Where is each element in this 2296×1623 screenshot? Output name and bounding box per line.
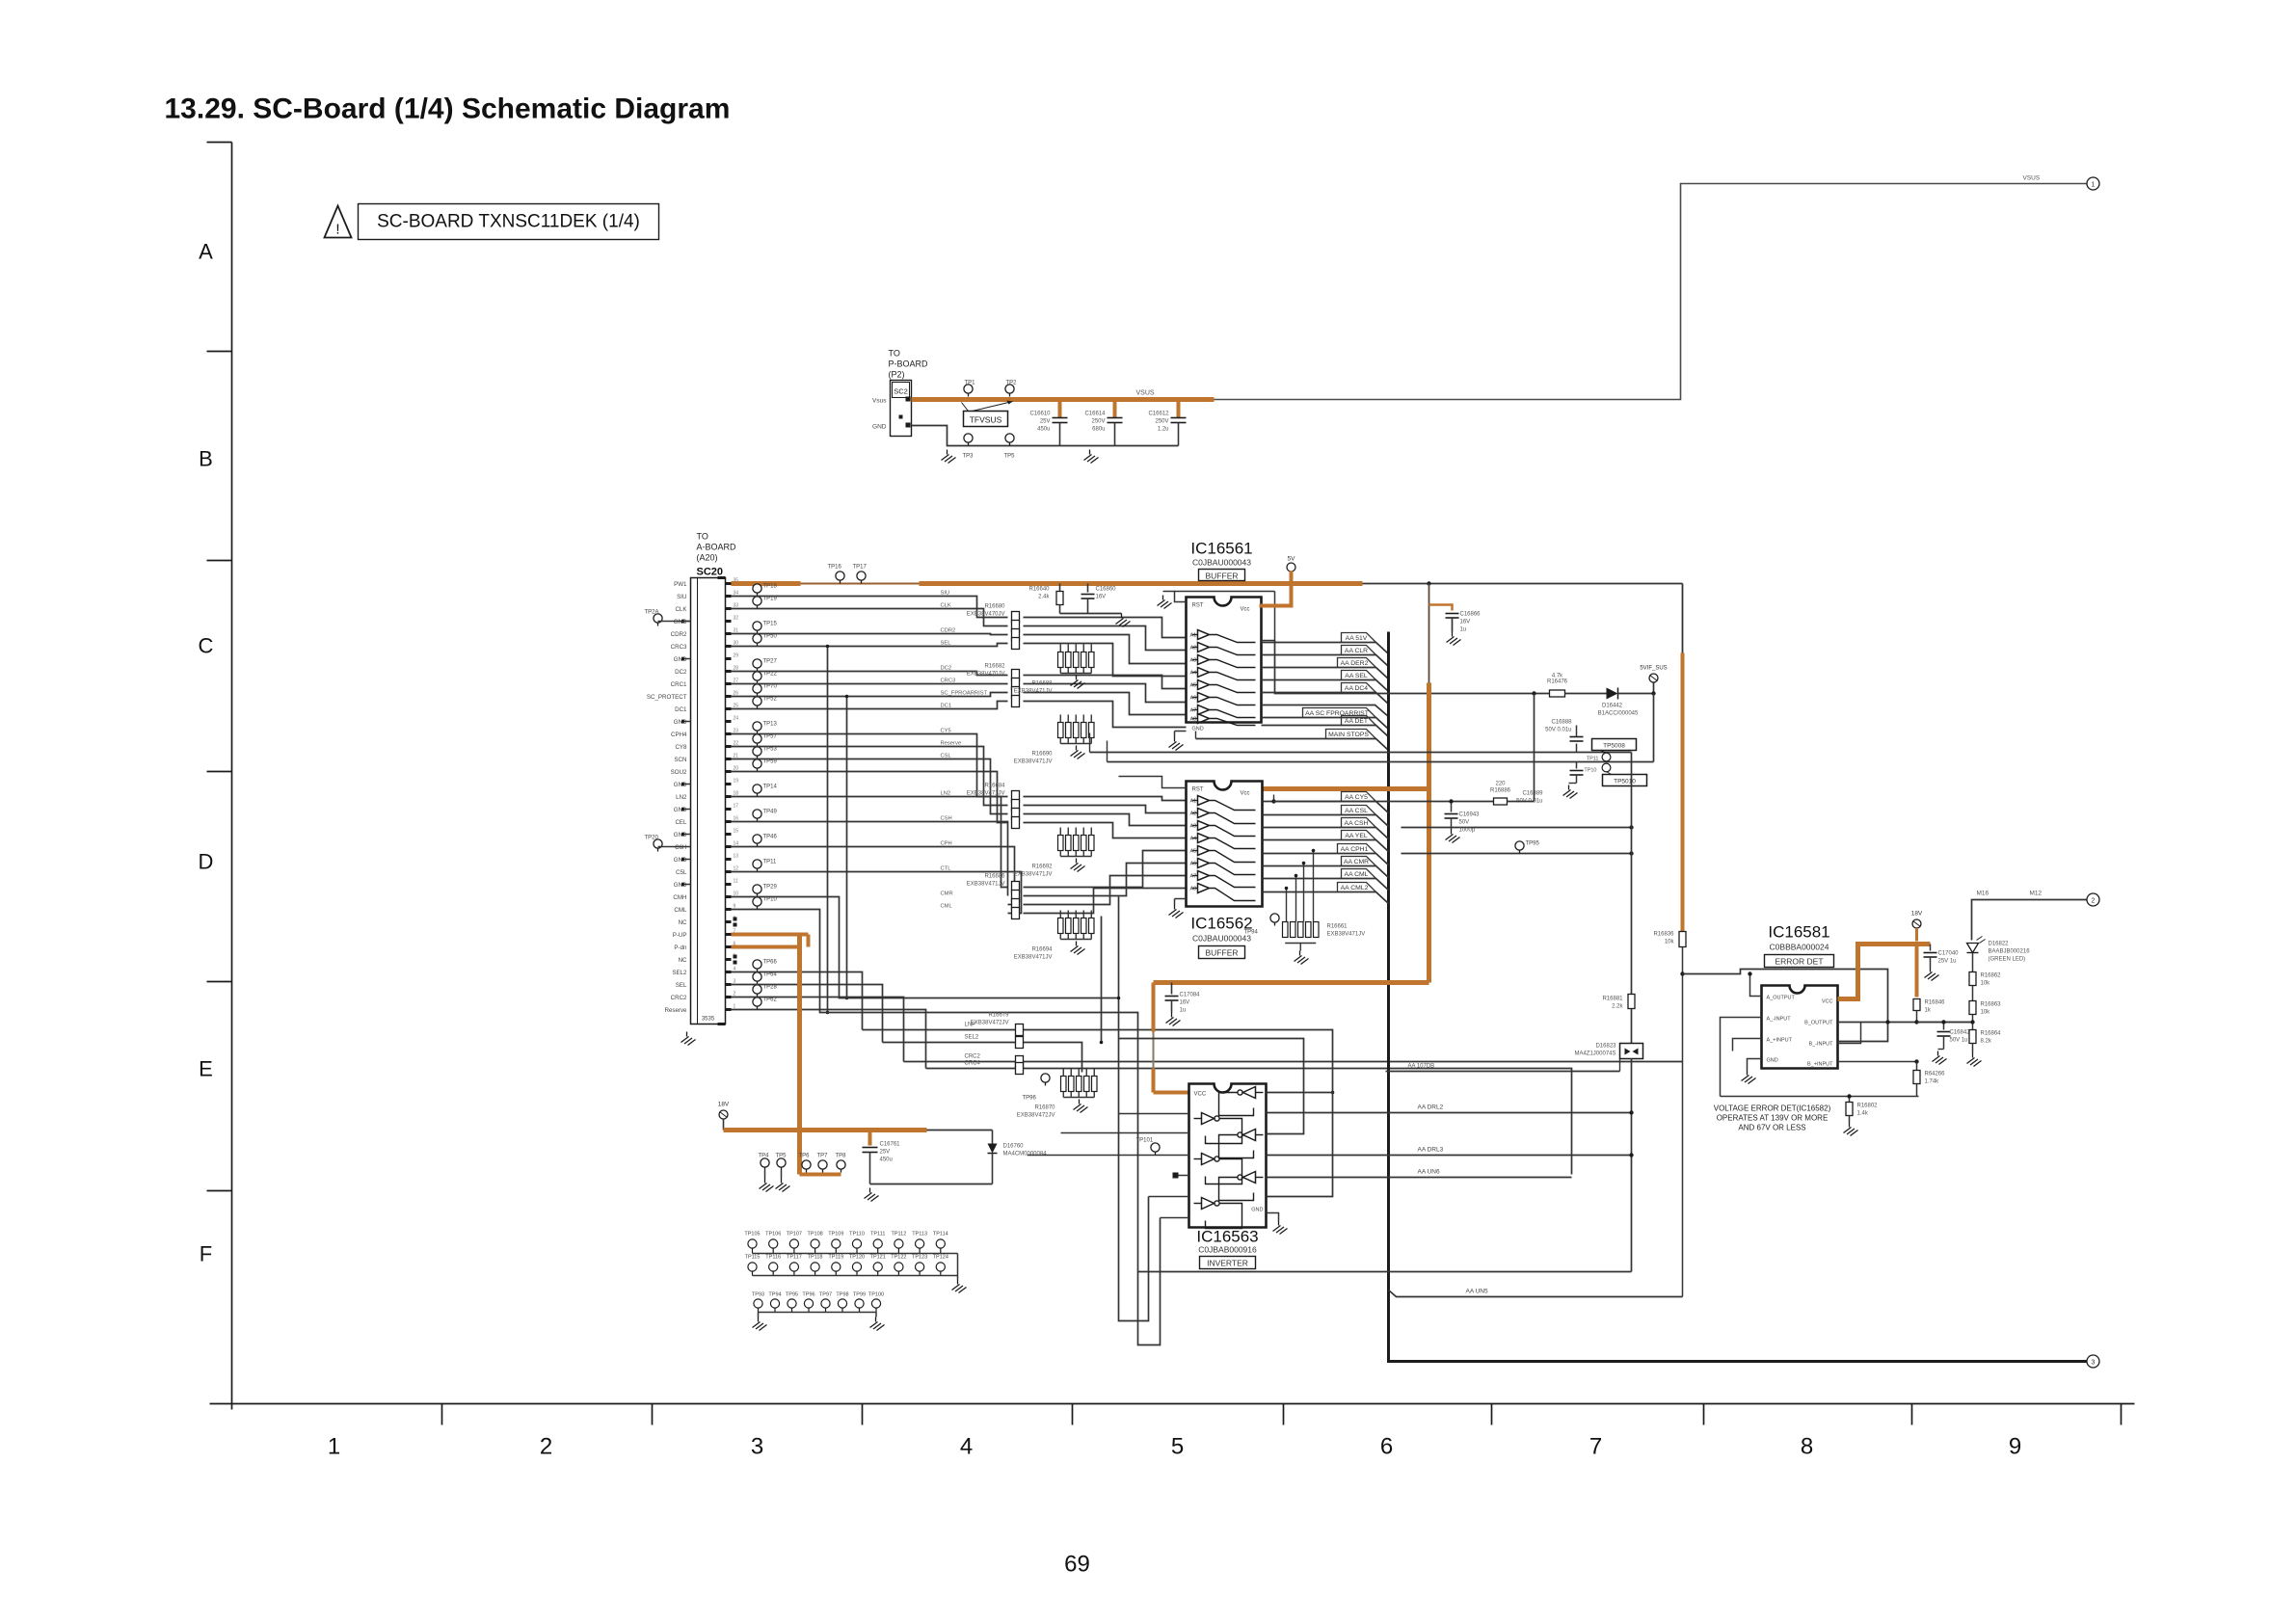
svg-text:TP4: TP4 — [759, 1154, 770, 1159]
svg-text:24: 24 — [734, 716, 739, 722]
svg-text:TP114: TP114 — [933, 1232, 948, 1237]
svg-text:50V 0.01u: 50V 0.01u — [1545, 728, 1571, 733]
svg-text:25: 25 — [734, 704, 739, 709]
ground — [952, 1280, 967, 1293]
svg-text:12: 12 — [734, 866, 739, 872]
net tag MAIN STOPS — [1196, 739, 1389, 751]
svg-text:TP19: TP19 — [763, 597, 778, 602]
svg-text:SEL2: SEL2 — [672, 970, 687, 976]
connector SC20 ground pin stubs — [681, 620, 691, 887]
svg-text:!: ! — [335, 222, 339, 238]
svg-text:TP14: TP14 — [763, 785, 778, 790]
svg-text:TP122: TP122 — [891, 1255, 906, 1261]
resistor network R16682 EXB38V470JV — [967, 664, 1020, 707]
IC16563 inverter gates — [1194, 1087, 1264, 1229]
svg-text:D16823: D16823 — [1595, 1044, 1616, 1050]
test point TP49 — [753, 810, 778, 822]
svg-text:VSUS: VSUS — [2023, 175, 2041, 182]
svg-text:C17084: C17084 — [1180, 993, 1201, 998]
ground — [1447, 632, 1461, 646]
svg-text:TP95: TP95 — [786, 1292, 798, 1298]
svg-text:TP2: TP2 — [1006, 381, 1018, 386]
net tag AA CSL — [1263, 815, 1389, 827]
svg-text:R16661: R16661 — [1327, 924, 1348, 930]
SC20 NC pin marks — [734, 918, 737, 927]
svg-text:32: 32 — [734, 616, 739, 622]
svg-text:1: 1 — [734, 1004, 736, 1010]
svg-text:CY5: CY5 — [941, 729, 951, 734]
svg-text:TP99: TP99 — [853, 1292, 866, 1298]
wire net LNP — [863, 1030, 1333, 1093]
comparator IC16581 C0BBBA000024 ERROR DET — [1762, 923, 1838, 1069]
svg-text:TO: TO — [697, 532, 708, 542]
svg-text:A7: A7 — [1190, 708, 1197, 714]
svg-text:A8: A8 — [1190, 887, 1197, 892]
svg-text:A1: A1 — [1190, 799, 1197, 805]
svg-text:TFVSUS: TFVSUS — [970, 415, 1002, 425]
wire B_-INPUT — [1838, 1023, 1861, 1044]
ground — [1295, 951, 1309, 965]
svg-text:TP5010: TP5010 — [1614, 779, 1636, 785]
svg-text:31: 31 — [734, 628, 739, 634]
svg-text:GND: GND — [674, 882, 687, 889]
svg-text:TP120: TP120 — [849, 1255, 865, 1261]
svg-text:23: 23 — [734, 729, 739, 734]
svg-text:A5: A5 — [1190, 849, 1197, 855]
border frame bottom line — [210, 1403, 2135, 1405]
svg-text:(P2): (P2) — [889, 370, 905, 380]
wire vertical x=1745 (right) — [1682, 584, 1684, 653]
svg-text:Reserve: Reserve — [941, 741, 962, 747]
svg-text:CRC3: CRC3 — [671, 644, 687, 651]
wire 5V bus from SC20 pin PW1 (orange) — [732, 581, 801, 586]
svg-text:50V 1u: 50V 1u — [1950, 1038, 1968, 1044]
svg-text:TP107: TP107 — [787, 1232, 802, 1237]
orange Vcc wiring of IC16581 — [1838, 945, 1931, 999]
wire R16640/C16860 ground rail — [1060, 613, 1122, 615]
test point TP50 — [753, 634, 778, 647]
svg-text:AA CPH1: AA CPH1 — [1341, 846, 1369, 853]
ground — [1563, 785, 1578, 799]
svg-text:TP97: TP97 — [819, 1292, 832, 1298]
capacitor C16842 — [1937, 1023, 1971, 1050]
svg-text:P-BOARD: P-BOARD — [889, 359, 929, 369]
svg-text:Vcc: Vcc — [1240, 607, 1249, 613]
svg-text:DC2: DC2 — [675, 669, 687, 676]
test point TP95 — [1515, 841, 1540, 854]
resistor chain R16862/R16863/R16864 — [1972, 953, 1974, 972]
ground — [1166, 1013, 1181, 1026]
svg-text:13: 13 — [734, 854, 739, 860]
svg-text:A2: A2 — [1190, 811, 1197, 817]
wire 5V bus continuation (black) to right vertical — [1363, 583, 1683, 585]
svg-text:TP113: TP113 — [912, 1232, 927, 1237]
svg-text:TP5008: TP5008 — [1603, 743, 1625, 750]
ground — [753, 1317, 767, 1331]
svg-text:3: 3 — [751, 1434, 763, 1460]
net tag AA YEL — [1263, 840, 1389, 852]
svg-text:AA SEL: AA SEL — [1345, 673, 1368, 679]
svg-text:A3: A3 — [1190, 658, 1197, 664]
svg-text:OPERATES AT 139V OR MORE: OPERATES AT 139V OR MORE — [1717, 1114, 1829, 1123]
svg-text:TP5: TP5 — [776, 1154, 788, 1159]
svg-text:TP7: TP7 — [817, 1154, 829, 1159]
svg-text:TP96: TP96 — [1023, 1096, 1037, 1102]
svg-text:4.7k: 4.7k — [1552, 674, 1563, 679]
svg-text:29: 29 — [734, 653, 739, 659]
IC16563 top loop — [1119, 1039, 1304, 1134]
svg-text:D16822: D16822 — [1989, 942, 2010, 947]
wire Vsus bus (orange) from SC2 — [912, 397, 1215, 402]
svg-text:220: 220 — [1495, 782, 1506, 787]
svg-text:B1ACC/000045: B1ACC/000045 — [1598, 711, 1639, 717]
svg-text:10k: 10k — [1981, 1010, 1991, 1016]
test point TP5 — [1004, 434, 1016, 460]
svg-text:LN2: LN2 — [941, 791, 951, 797]
svg-text:4: 4 — [734, 967, 736, 972]
svg-text:MAIN STOPS: MAIN STOPS — [1328, 732, 1369, 738]
svg-text:2.4k: 2.4k — [1038, 595, 1050, 600]
svg-text:GND: GND — [674, 857, 687, 864]
svg-text:SEL2: SEL2 — [965, 1035, 979, 1041]
svg-text:A3: A3 — [1190, 824, 1197, 830]
wire P-dn row (orange) — [732, 945, 800, 949]
svg-text:GND: GND — [1767, 1058, 1778, 1064]
svg-text:TP50: TP50 — [763, 634, 778, 640]
svg-text:SIU: SIU — [677, 594, 686, 600]
svg-text:SC-BOARD TXNSC11DEK (1/4): SC-BOARD TXNSC11DEK (1/4) — [377, 212, 640, 232]
svg-text:C0JBAU000043: C0JBAU000043 — [1192, 558, 1251, 568]
note text voltage error det — [1714, 1104, 1831, 1132]
wire Vsus continues to sheet terminal 1 — [1215, 184, 2087, 400]
svg-text:RST: RST — [1192, 603, 1204, 609]
resistor R64266 — [1916, 1062, 1918, 1071]
net tag AA 51V — [1262, 643, 1389, 654]
wire orange horizontal to IC16563 supply — [1154, 980, 1429, 985]
svg-text:3: 3 — [2092, 1360, 2096, 1367]
ground — [760, 1179, 774, 1192]
LED D16822 BAABJB000216 (GREEN LED) — [1967, 937, 2031, 963]
svg-text:TP121: TP121 — [870, 1255, 886, 1261]
frame column tick — [2121, 1404, 2122, 1425]
svg-text:69: 69 — [1064, 1552, 1090, 1578]
test point TP29 — [753, 885, 778, 897]
svg-text:AA DC4: AA DC4 — [1345, 685, 1368, 692]
resistor network R16690 — [1014, 715, 1094, 765]
ground — [1273, 1221, 1288, 1235]
IC16561 buffer gates — [1190, 630, 1256, 726]
svg-text:R16679: R16679 — [988, 1013, 1009, 1019]
svg-text:1.2u: 1.2u — [1158, 427, 1169, 433]
svg-text:TP27: TP27 — [763, 659, 778, 665]
resistor network R16870 — [1017, 1069, 1097, 1119]
net tag AA CML2 — [1263, 892, 1389, 904]
svg-text:A1: A1 — [1190, 633, 1197, 639]
test point TP1 — [964, 381, 975, 397]
wire feedback vertical x=1591 — [1534, 694, 1535, 802]
resistor network R16692 — [1014, 828, 1094, 878]
wire SC20 CMH/CML rows — [732, 897, 1119, 1039]
svg-text:SCN: SCN — [674, 757, 686, 763]
power symbol 5VSUS — [1640, 666, 1667, 683]
ground — [1071, 859, 1085, 872]
svg-text:TP119: TP119 — [828, 1255, 843, 1261]
svg-text:AA CY5: AA CY5 — [1345, 794, 1368, 801]
IC16563 left loop B — [1138, 1068, 1161, 1345]
svg-text:R16886: R16886 — [1490, 788, 1511, 794]
wire group SC20 DC2/CRC1/SC_PROTECT/DC1 to IC16561 inputs — [732, 672, 1008, 676]
svg-text:450u: 450u — [880, 1157, 893, 1163]
wire feedback bottom — [1721, 1096, 1919, 1098]
svg-text:A_+INPUT: A_+INPUT — [1767, 1038, 1793, 1044]
wire GND from SC2 — [912, 426, 1179, 446]
svg-text:D16760: D16760 — [1003, 1144, 1025, 1150]
svg-text:CPH4: CPH4 — [671, 732, 687, 738]
svg-text:AA UN6: AA UN6 — [1418, 1169, 1441, 1176]
frame row tick — [207, 560, 232, 562]
IC16581 GND — [1748, 1059, 1762, 1071]
svg-text:GND: GND — [674, 619, 687, 625]
ground — [776, 1179, 790, 1192]
svg-text:CSH: CSH — [941, 816, 952, 822]
wire group SC20 SEL2/SEL/CRC2/Reserve down to lower nets — [732, 972, 863, 1030]
svg-text:R16881: R16881 — [1602, 997, 1623, 1002]
svg-text:NC: NC — [679, 957, 687, 964]
svg-text:TP94: TP94 — [768, 1292, 781, 1298]
svg-text:14: 14 — [734, 841, 739, 847]
svg-text:GND: GND — [674, 782, 687, 788]
wire net SEL2 — [883, 1043, 1082, 1073]
svg-text:9: 9 — [734, 904, 736, 910]
warning triangle — [325, 206, 352, 238]
svg-text:20: 20 — [734, 766, 739, 772]
wire C16761/D16760 ground link — [870, 1184, 993, 1185]
test point TP10 — [1584, 763, 1611, 773]
svg-text:(GREEN LED): (GREEN LED) — [1989, 957, 2026, 963]
svg-text:TP8: TP8 — [836, 1154, 847, 1159]
svg-text:MA4Z1J00074S: MA4Z1J00074S — [1574, 1051, 1615, 1057]
test point TP10 — [753, 897, 778, 910]
ground — [1742, 1071, 1756, 1084]
svg-text:TP53: TP53 — [763, 747, 778, 753]
svg-text:R64266: R64266 — [1925, 1072, 1946, 1078]
svg-text:TP115: TP115 — [745, 1255, 761, 1261]
IC16561 RST pin wiring and ground — [1175, 592, 1275, 602]
test point TP22 — [753, 672, 778, 684]
frame column tick — [1703, 1404, 1705, 1425]
svg-text:EXB38V472JV: EXB38V472JV — [971, 1021, 1009, 1026]
svg-text:AA YEL: AA YEL — [1345, 833, 1368, 839]
svg-text:1k: 1k — [1925, 1008, 1932, 1014]
svg-text:250V: 250V — [1155, 419, 1168, 425]
svg-text:VOLTAGE ERROR DET(IC16582): VOLTAGE ERROR DET(IC16582) — [1714, 1104, 1831, 1113]
svg-text:TP95: TP95 — [1526, 841, 1540, 847]
test point row TP115-TP124 — [745, 1254, 958, 1280]
svg-text:TO: TO — [889, 349, 900, 359]
wire IC16581 outer loop — [1683, 970, 1888, 1042]
svg-text:EXB38V472JV: EXB38V472JV — [1017, 1113, 1055, 1119]
power symbol 5V (IC16581) — [1911, 911, 1923, 942]
test point TP11 — [1587, 753, 1611, 761]
svg-text:D16442: D16442 — [1602, 704, 1623, 709]
svg-text:PW1: PW1 — [674, 581, 687, 588]
svg-text:B_OUTPUT: B_OUTPUT — [1804, 1021, 1833, 1026]
wire bottom loop to bus (AA UN5) — [1389, 1290, 1683, 1297]
svg-text:TP10: TP10 — [763, 897, 778, 903]
test point TP14 — [753, 785, 778, 797]
test point TP16 — [828, 565, 845, 584]
ground — [1074, 1100, 1088, 1113]
wire orange IC16562 Vcc horizontal — [1263, 786, 1429, 791]
test point TP2A — [645, 610, 663, 626]
net tag AA CML — [1263, 879, 1389, 891]
wire B_+INPUT to R64266 — [1838, 1061, 1917, 1063]
wire branch CRC3 down bundle — [827, 647, 829, 1013]
svg-text:D: D — [199, 850, 214, 874]
svg-text:AND 67V OR LESS: AND 67V OR LESS — [1738, 1124, 1805, 1132]
svg-text:C16612: C16612 — [1148, 412, 1169, 417]
net tag AA CY5 — [1263, 802, 1389, 813]
ground — [1169, 737, 1184, 751]
test point TP15 — [753, 622, 778, 634]
frame column tick — [1911, 1404, 1913, 1425]
frame column tick — [1072, 1404, 1074, 1425]
test point TP94 — [1244, 914, 1280, 936]
svg-text:EXB38V470JV: EXB38V470JV — [967, 612, 1005, 618]
capacitor C16866 — [1446, 614, 1459, 619]
svg-text:SC_FPROARRIST: SC_FPROARRIST — [941, 691, 988, 697]
svg-text:C16866: C16866 — [1460, 612, 1482, 618]
svg-text:3535: 3535 — [702, 1017, 715, 1023]
power symbol 5V at IC16561 — [1287, 556, 1295, 572]
resistor R16476 — [1550, 690, 1565, 697]
board name box — [359, 204, 659, 240]
svg-text:B_-INPUT: B_-INPUT — [1808, 1042, 1833, 1048]
svg-text:AA DRL2: AA DRL2 — [1418, 1104, 1444, 1111]
svg-text:CML: CML — [941, 904, 953, 910]
svg-text:CSL: CSL — [941, 754, 952, 759]
frame row tick — [207, 351, 232, 353]
svg-text:10k: 10k — [1665, 940, 1675, 945]
wire P-UP row (orange) — [732, 933, 809, 937]
svg-text:TP52: TP52 — [763, 697, 778, 703]
wire group SC20 SIU/CLK/CDR2/CRC3 to IC16561 inputs — [732, 597, 1008, 618]
wire IC16563 pin8 — [1161, 1217, 1189, 1219]
svg-text:R16684: R16684 — [984, 784, 1005, 789]
ground — [1169, 905, 1184, 918]
test point TP11 — [753, 860, 777, 872]
resistor network R16680 EXB38V470JV — [967, 604, 1020, 650]
wire group SC20 CPH4/CY8/SCN/SOU2 to IC16562 inputs — [732, 734, 1008, 797]
svg-text:TP111: TP111 — [870, 1232, 885, 1237]
svg-text:BUFFER: BUFFER — [1206, 948, 1239, 958]
resistor network R16686 EXB38V471JV — [967, 874, 1020, 919]
net tag AA DER2 — [1262, 668, 1389, 679]
svg-text:SOU2: SOU2 — [671, 769, 687, 776]
svg-text:TP46: TP46 — [763, 835, 778, 840]
IC16562 GND pin — [1175, 899, 1187, 905]
svg-text:SEL: SEL — [676, 982, 687, 989]
svg-text:C: C — [199, 634, 214, 658]
capacitor C16761 — [863, 1131, 901, 1184]
frame column tick — [1283, 1404, 1285, 1425]
svg-text:CRC2: CRC2 — [965, 1054, 981, 1060]
ground — [1071, 942, 1085, 955]
svg-text:A_-INPUT: A_-INPUT — [1767, 1017, 1792, 1023]
test point TP17 — [853, 565, 868, 584]
svg-text:M16: M16 — [1977, 891, 1989, 897]
svg-text:TP16: TP16 — [828, 565, 842, 571]
wire IC16561 pin9 long run — [1195, 732, 1197, 739]
wire A_+INPUT — [1733, 1039, 1762, 1051]
svg-text:F: F — [200, 1242, 212, 1266]
svg-text:5V: 5V — [1288, 556, 1296, 563]
svg-text:1.4k: 1.4k — [1857, 1111, 1869, 1117]
svg-text:R16862: R16862 — [1981, 973, 2002, 979]
svg-text:7: 7 — [1589, 1434, 1602, 1460]
wire orange TP spur — [800, 1173, 841, 1177]
test point TP52 — [753, 697, 778, 709]
IC16563 output 3A (AA UN6) — [1267, 1177, 1572, 1179]
svg-text:C0BBBA000024: C0BBBA000024 — [1770, 943, 1829, 952]
svg-text:10: 10 — [734, 891, 739, 897]
svg-text:SC2: SC2 — [894, 387, 908, 396]
ground — [1933, 1051, 1947, 1065]
test point TP28 — [753, 985, 778, 998]
resistor network R16684 EXB38V471JV — [967, 784, 1020, 829]
wire 5V to IC16561 Vcc (orange) — [1260, 572, 1292, 606]
svg-text:CPH: CPH — [941, 841, 952, 847]
resistor R16862 10k — [1969, 972, 1976, 986]
svg-text:CRC2: CRC2 — [671, 995, 687, 1001]
svg-text:22: 22 — [734, 741, 739, 747]
svg-text:AA CMR: AA CMR — [1344, 859, 1369, 865]
svg-text:34: 34 — [734, 591, 739, 597]
svg-text:SIU: SIU — [941, 591, 950, 597]
svg-text:TP2A: TP2A — [645, 610, 659, 616]
svg-text:21: 21 — [734, 754, 739, 759]
resistor network R16661 EXB38V471JV — [1283, 922, 1366, 944]
svg-text:10k: 10k — [1981, 981, 1991, 987]
svg-text:16V: 16V — [1180, 1000, 1190, 1006]
test point TP64 — [753, 972, 778, 985]
svg-text:13.29. SC-Board (1/4) Schemati: 13.29. SC-Board (1/4) Schematic Diagram — [165, 93, 731, 125]
svg-text:VSUS: VSUS — [1136, 390, 1155, 397]
test point flag TP5008 — [1592, 739, 1637, 754]
svg-text:R16694: R16694 — [1031, 947, 1053, 953]
svg-text:C6H: C6H — [675, 844, 686, 851]
wire branch SC_PROTECT down bundle — [846, 697, 848, 998]
net tag AA DET — [1262, 726, 1389, 737]
capacitor C16614 — [1084, 400, 1122, 446]
svg-text:R16682: R16682 — [984, 664, 1005, 670]
svg-text:A8: A8 — [1190, 717, 1197, 723]
wire mid vertical to lower nets B — [1118, 897, 1120, 998]
svg-text:33: 33 — [734, 603, 739, 609]
resistor R16640 2.4k — [1028, 584, 1063, 614]
svg-text:1u: 1u — [1180, 1008, 1187, 1014]
svg-text:CLK: CLK — [675, 606, 687, 613]
wire rows continuing right of bus — [1402, 827, 1632, 829]
svg-text:TP98: TP98 — [836, 1292, 848, 1298]
wire bottom of loop x=1692 — [1138, 1271, 1632, 1273]
frame column tick — [862, 1404, 864, 1425]
svg-text:M12: M12 — [2030, 891, 2042, 897]
svg-text:DC1: DC1 — [941, 704, 952, 709]
svg-text:GND: GND — [674, 832, 687, 838]
svg-text:18V: 18V — [1911, 911, 1923, 918]
test point TP19 — [753, 597, 778, 609]
